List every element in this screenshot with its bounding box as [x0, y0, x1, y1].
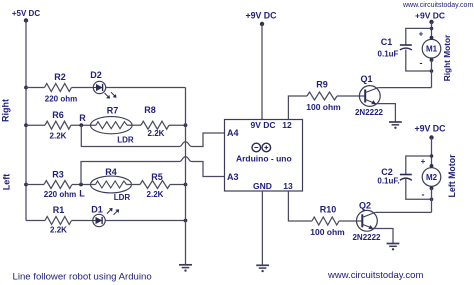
svg-text:+5V DC: +5V DC [12, 9, 40, 18]
svg-text:+9V DC: +9V DC [414, 124, 446, 134]
ground Q2 [387, 244, 400, 251]
wire node L to A3 with crossover hump [81, 157, 225, 185]
svg-text:+: + [421, 157, 426, 166]
node Right label [1, 99, 11, 122]
capacitor C2 0.1uF [377, 167, 411, 186]
wire R5 to right rail [170, 184, 186, 186]
svg-text:www.circuitstoday.com: www.circuitstoday.com [402, 2, 473, 9]
svg-text:M1: M1 [426, 45, 438, 54]
svg-text:2N2222: 2N2222 [355, 108, 384, 117]
svg-text:100 ohm: 100 ohm [310, 227, 345, 237]
LDR R4 [91, 167, 132, 202]
LED D2 [90, 70, 116, 99]
wire R2 to D2 [72, 87, 94, 89]
svg-text:R2: R2 [54, 72, 66, 82]
wire to C2 top [406, 156, 432, 175]
resistor R2 220 ohm [45, 84, 72, 92]
svg-text:0.1uF.: 0.1uF. [377, 177, 399, 186]
svg-text:R5: R5 [151, 172, 163, 182]
junction M2 bottom [430, 198, 434, 202]
node R [79, 113, 86, 127]
wire right sensor rail [185, 88, 187, 265]
wire to C1 top [406, 28, 432, 45]
LED D1 [91, 205, 119, 227]
svg-text:100 ohm: 100 ohm [306, 102, 341, 112]
svg-text:C1: C1 [381, 37, 393, 47]
svg-text:R8: R8 [144, 105, 156, 115]
wire R3 to node L [72, 184, 96, 186]
node +5V DC [12, 9, 40, 23]
svg-text:220 ohm: 220 ohm [44, 190, 76, 199]
op-amp U1 Arduino uno box [225, 120, 303, 192]
wire M2 bottom to collector [431, 188, 433, 212]
resistor R6 2.2K [45, 121, 71, 129]
svg-text:R9: R9 [316, 80, 328, 90]
LDR R7 [91, 106, 134, 145]
wire R6 to node R [71, 124, 96, 126]
wire 9V to M1 top [431, 22, 433, 37]
wire GND pin to ground [261, 191, 263, 265]
junction M1 bottom [430, 69, 434, 73]
svg-text:Q1: Q1 [360, 74, 372, 84]
svg-text:LDR: LDR [117, 136, 134, 145]
svg-text:Left Motor: Left Motor [447, 154, 457, 198]
resistor R1 2.2K [45, 217, 72, 225]
svg-text:2.2K: 2.2K [50, 226, 67, 235]
svg-text:R7: R7 [107, 106, 119, 116]
resistor R3 220 ohm [44, 181, 72, 189]
junction row3-left [24, 183, 28, 187]
svg-text:+: + [419, 30, 424, 39]
junction R5-rail [184, 183, 188, 187]
svg-text:R: R [79, 113, 86, 123]
wire pin 12 to R9 [288, 96, 307, 120]
junction R8-rail [184, 123, 188, 127]
wire left +5V rail [25, 21, 27, 221]
svg-text:Q2: Q2 [359, 201, 371, 211]
svg-text:R3: R3 [52, 170, 64, 180]
resistor R10 100 ohm [312, 217, 339, 225]
wire row2 left [26, 124, 45, 126]
svg-text:L: L [79, 189, 85, 199]
svg-text:Arduino - uno: Arduino - uno [236, 154, 292, 164]
wire R10 to Q2 base [339, 220, 362, 222]
junction C2 branch top [430, 154, 434, 158]
ground Q1 [389, 122, 402, 129]
resistor R8 2.2K [141, 121, 169, 129]
wire C2 bottom to M2 bottom junction [406, 179, 432, 199]
wire row3 left [26, 184, 44, 186]
node Left Motor label [447, 154, 457, 198]
wire pin 13 to R10 [288, 191, 312, 221]
svg-text:LDR: LDR [114, 193, 131, 202]
wire R8 to right rail [169, 124, 186, 126]
wire R4 to R5 [127, 184, 141, 186]
wire C1 bottom to M1 bottom junction [406, 50, 432, 72]
svg-text:+9V DC: +9V DC [415, 11, 445, 21]
resistor R9 100 ohm [307, 92, 337, 100]
node Right Motor label [442, 34, 452, 81]
wire M1 bottom to collector [431, 60, 433, 88]
transistor Q1 2N2222 [355, 74, 384, 117]
svg-text:GND: GND [253, 181, 272, 191]
svg-text:M2: M2 [426, 173, 438, 182]
svg-text:2.2K: 2.2K [148, 129, 165, 138]
resistor R5 2.2K [140, 181, 170, 189]
svg-text:2.2K: 2.2K [147, 190, 164, 199]
svg-text:www.circuitstoday.com: www.circuitstoday.com [327, 270, 423, 281]
junction row2-left [24, 123, 28, 127]
svg-text:Line follower robot using Ardu: Line follower robot using Arduino [13, 272, 152, 283]
wire R7 to R8 [127, 124, 141, 126]
junction row4-rail [184, 219, 188, 223]
wire D2 to right rail [106, 87, 186, 89]
node Left label [2, 174, 12, 191]
svg-text:9V DC: 9V DC [250, 120, 275, 130]
svg-text:12: 12 [282, 120, 292, 130]
capacitor C1 0.1uF [378, 37, 412, 59]
wire R1 to D1 [72, 220, 94, 222]
ground GND pin [256, 265, 269, 272]
wire Q1 emitter to ground [376, 104, 396, 122]
wire 9V to box [261, 24, 263, 120]
svg-text:D2: D2 [90, 70, 102, 80]
svg-text:A4: A4 [227, 128, 239, 138]
wire node R to A4 with crossover hump [81, 125, 224, 146]
junction C1 branch top [430, 27, 434, 31]
watermark [402, 2, 473, 9]
motor M1 [419, 30, 441, 69]
svg-text:C2: C2 [381, 167, 393, 177]
svg-text:13: 13 [283, 181, 293, 191]
ground sensor rail [179, 265, 192, 272]
wire Q1 collector to M1 [378, 87, 431, 89]
svg-text:0.1uF: 0.1uF [378, 50, 399, 59]
wire D1 to right rail [105, 220, 185, 222]
svg-text:R4: R4 [105, 167, 117, 177]
svg-text:R1: R1 [53, 205, 65, 215]
motor M2 [421, 157, 441, 200]
wire Q2 emitter to ground [373, 229, 393, 244]
svg-text:D1: D1 [91, 205, 103, 215]
svg-text:+9V DC: +9V DC [245, 11, 277, 21]
svg-text:220 ohm: 220 ohm [45, 95, 77, 104]
wire 9V to M2 top [431, 138, 433, 166]
svg-text:A3: A3 [227, 172, 239, 182]
svg-text:2N2222: 2N2222 [352, 233, 381, 242]
svg-text:R6: R6 [52, 110, 64, 120]
svg-text:-: - [420, 58, 423, 68]
junction row1-left [24, 86, 28, 90]
node +9V DC left motor [414, 124, 446, 140]
node title [13, 272, 152, 283]
svg-text:Left: Left [2, 174, 12, 191]
wire R9 to Q1 base [337, 95, 365, 97]
svg-text:Right Motor: Right Motor [442, 34, 452, 81]
node website [327, 270, 423, 281]
node +9V DC top center [245, 11, 277, 27]
transistor Q2 2N2222 [352, 201, 381, 243]
svg-text:R10: R10 [320, 205, 337, 215]
wire row1 left [26, 87, 45, 89]
node L [79, 183, 85, 199]
wire row4 left [26, 220, 45, 222]
node +9V DC right motor [415, 11, 445, 25]
svg-text:2.2K: 2.2K [50, 132, 67, 141]
wire Q2 collector to M2 [375, 211, 431, 213]
svg-text:-: - [422, 190, 425, 200]
svg-text:Right: Right [1, 99, 11, 122]
